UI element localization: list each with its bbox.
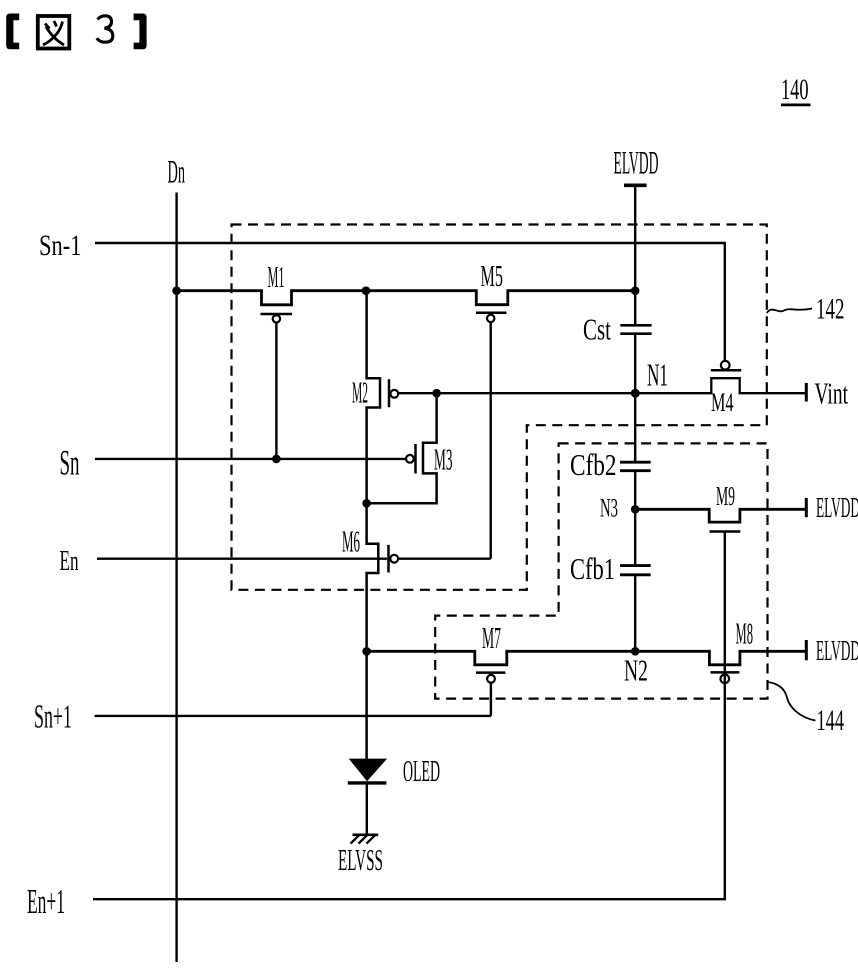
svg-text:140: 140: [781, 73, 809, 106]
svg-text:OLED: OLED: [403, 753, 440, 788]
svg-text:N3: N3: [600, 494, 618, 523]
svg-text:M8: M8: [736, 616, 754, 651]
svg-text:Cst: Cst: [583, 312, 611, 347]
svg-text:M5: M5: [481, 258, 504, 293]
svg-text:M4: M4: [711, 388, 734, 417]
svg-text:ELVSS: ELVSS: [338, 842, 383, 877]
svg-text:Dn: Dn: [168, 155, 186, 191]
svg-text:N2: N2: [624, 653, 648, 688]
svg-text:En: En: [60, 546, 79, 577]
svg-text:ELVDD: ELVDD: [816, 635, 858, 667]
svg-text:Cfb2: Cfb2: [570, 447, 617, 482]
svg-text:144: 144: [817, 704, 845, 737]
svg-text:Sn+1: Sn+1: [34, 699, 72, 736]
svg-text:Vint: Vint: [815, 376, 849, 411]
svg-text:N1: N1: [647, 357, 668, 393]
svg-text:M7: M7: [482, 620, 501, 655]
svg-text:Cfb1: Cfb1: [570, 551, 615, 586]
svg-text:Sn-1: Sn-1: [39, 229, 82, 262]
svg-text:M1: M1: [268, 259, 285, 294]
svg-text:M3: M3: [434, 442, 453, 477]
svg-text:ELVDD: ELVDD: [614, 146, 659, 182]
svg-text:M6: M6: [342, 524, 360, 559]
svg-text:M2: M2: [352, 375, 368, 410]
svg-text:142: 142: [816, 293, 845, 326]
svg-text:En+1: En+1: [27, 882, 65, 921]
svg-text:ELVDD: ELVDD: [816, 492, 858, 524]
svg-text:M9: M9: [716, 481, 735, 511]
svg-text:Sn: Sn: [60, 443, 80, 483]
